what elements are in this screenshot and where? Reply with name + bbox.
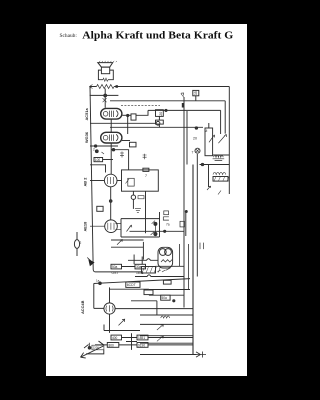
svg-text:7: 7 <box>145 174 147 178</box>
svg-text:100: 100 <box>95 158 101 162</box>
svg-text:400: 400 <box>112 336 118 340</box>
svg-text:WG36: WG36 <box>84 131 89 143</box>
svg-text:9190: 9190 <box>138 343 145 347</box>
svg-text:2: 2 <box>93 148 95 152</box>
svg-text:1835: 1835 <box>136 271 144 275</box>
svg-text:50a: 50a <box>112 265 118 269</box>
svg-text:AE18: AE18 <box>83 221 88 232</box>
svg-text:Schaub:: Schaub: <box>60 33 78 39</box>
svg-text:M: M <box>205 129 208 133</box>
svg-text:30a: 30a <box>136 265 142 269</box>
svg-text:1851: 1851 <box>138 336 145 340</box>
svg-text:6CDT: 6CDT <box>127 283 136 287</box>
svg-text:2: 2 <box>80 241 82 245</box>
svg-text:Alpha Kraft und Beta Kraft G: Alpha Kraft und Beta Kraft G <box>82 30 233 41</box>
svg-text:7: 7 <box>192 151 194 155</box>
svg-text:1a: 1a <box>96 279 100 283</box>
svg-text:800: 800 <box>109 343 115 347</box>
svg-text:7a: 7a <box>166 223 170 227</box>
svg-text:50a: 50a <box>162 296 168 300</box>
svg-text:AC51a: AC51a <box>84 108 89 121</box>
svg-text:ACC4B: ACC4B <box>80 300 85 314</box>
svg-text:220V~: 220V~ <box>93 346 102 350</box>
svg-text:35: 35 <box>194 91 198 95</box>
svg-text:OST: OST <box>112 271 119 275</box>
svg-text:AB 2: AB 2 <box>83 177 88 187</box>
svg-text:20: 20 <box>159 112 163 116</box>
svg-text:20: 20 <box>193 137 197 141</box>
